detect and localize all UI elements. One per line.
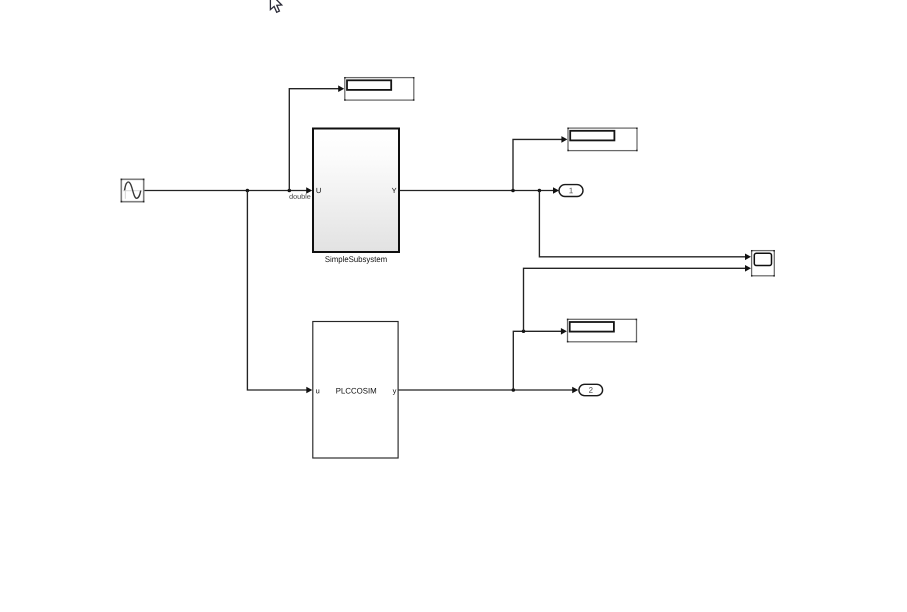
display block 3: [567, 319, 637, 343]
scope block: [751, 250, 775, 277]
wire: PLCCOSIM y output to outport 2: [399, 387, 579, 394]
outport 2: [579, 384, 603, 395]
outport 1: [559, 185, 583, 197]
subsystem block SimpleSubsystem: [313, 129, 399, 253]
mouse cursor: [270, 0, 281, 12]
junction node F: [522, 330, 526, 334]
wire: branch up from node E to display 3: [513, 328, 567, 390]
junction node D: [538, 189, 542, 193]
junction node E: [512, 388, 516, 392]
wire: branch up from node F to scope input 2: [524, 265, 752, 331]
subsystem block PLCCOSIM: [313, 322, 398, 459]
junction node B: [288, 189, 292, 193]
junction node A: [246, 189, 250, 193]
display block 2: [567, 128, 637, 152]
display block 1: [344, 77, 414, 101]
block name PLCCOSIM: [336, 388, 376, 394]
junction node C: [511, 189, 515, 193]
sine wave source block Sine Wave: [121, 179, 145, 203]
port label y: [393, 389, 397, 395]
wire: sine output to subsystem U input: [145, 187, 313, 194]
port label U: [316, 188, 320, 193]
outport 1 number label: [569, 188, 572, 194]
port label u: [316, 389, 319, 393]
wire: subsystem Y output to outport 1: [400, 187, 559, 194]
wire: branch down from node D to scope input 1: [539, 191, 751, 261]
wire: branch up from node B to display 1: [289, 85, 344, 190]
label double (signal data type): [289, 194, 310, 199]
outport 2 number label: [589, 387, 593, 393]
port label Y: [392, 188, 397, 193]
label SimpleSubsystem: [325, 256, 386, 264]
wire: branch down from node A to PLCCOSIM u input: [247, 191, 312, 394]
wire: branch up from node C to display 2: [513, 136, 567, 190]
